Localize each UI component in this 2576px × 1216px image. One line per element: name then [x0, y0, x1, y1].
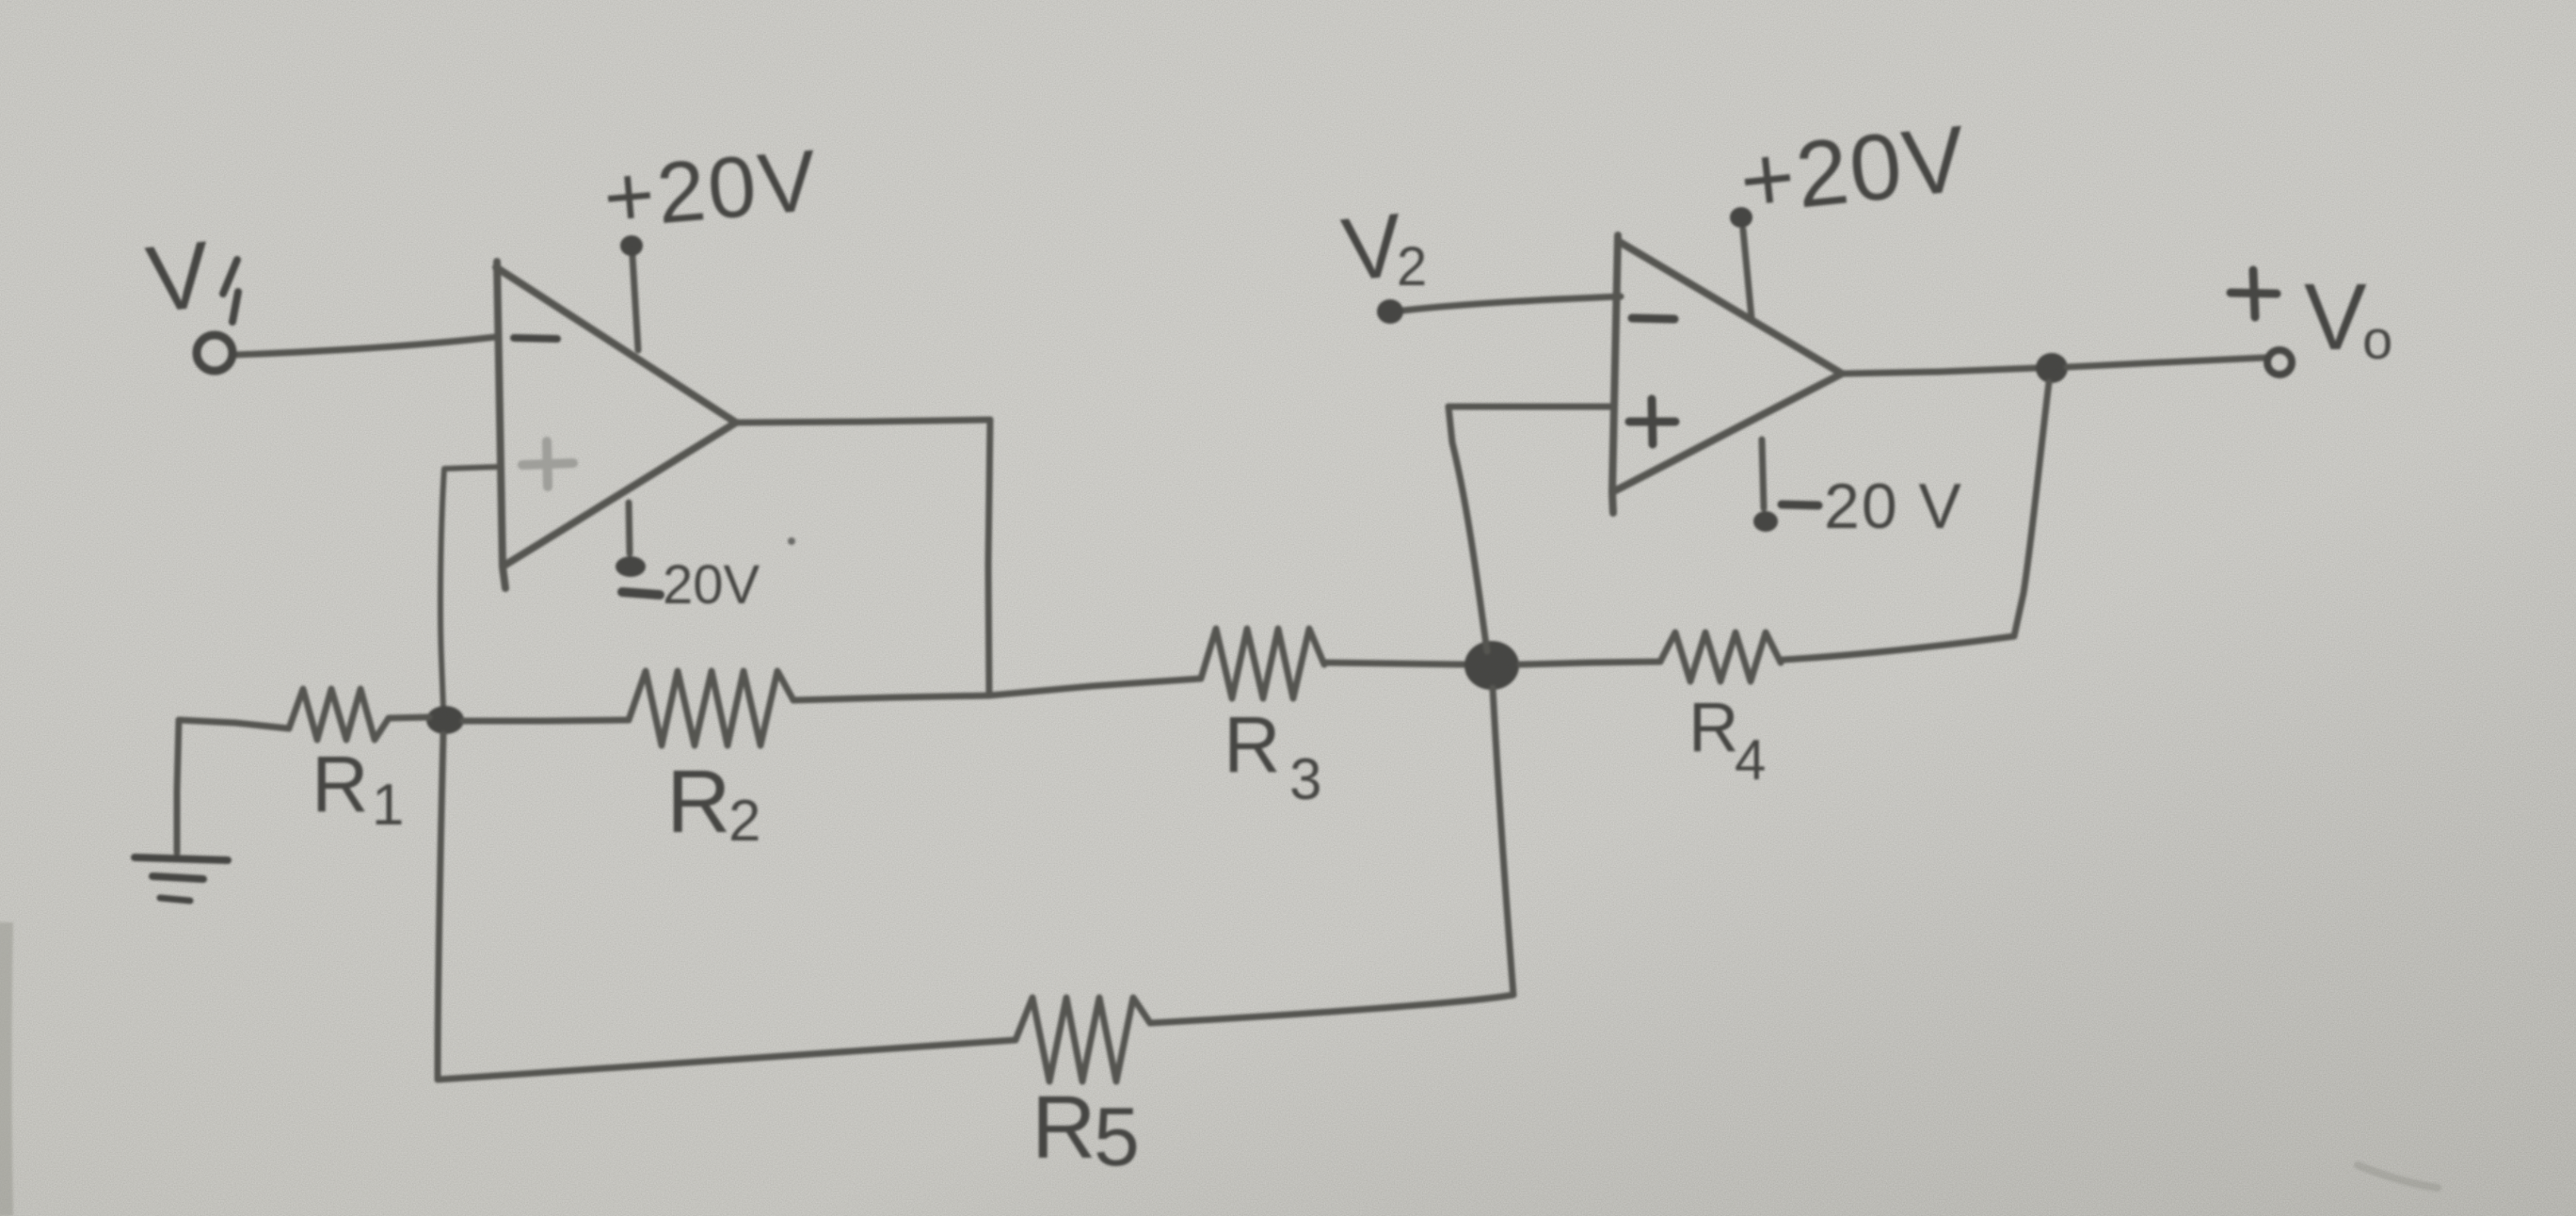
svg-text:1: 1 [372, 773, 404, 838]
U2 inverting input marker [1632, 318, 1674, 319]
terminal V1 (open circle) [197, 335, 232, 371]
ground wire [177, 720, 179, 853]
U1 +20V supply dot [620, 235, 643, 256]
resistor R5 [1016, 998, 1150, 1081]
U1 -20V supply stub [629, 503, 630, 553]
wire: R1 to node A [389, 717, 429, 718]
U2 non-inverting input marker [1629, 418, 1675, 426]
wire: V1 to inverting input of U1 [234, 337, 496, 355]
label V2 [1337, 195, 1407, 300]
wire: R2 to output node [793, 696, 989, 700]
label -20V (U1) [622, 592, 660, 595]
wire: V2 to U2 inverting input [1402, 296, 1621, 311]
node A junction dot [426, 706, 464, 734]
U1 inverting input marker [514, 338, 557, 339]
U2 -20V supply dot [1753, 511, 1778, 532]
paper edge band bottom-left [5, 922, 7, 1216]
svg-text:5: 5 [1094, 1090, 1140, 1183]
svg-text:2: 2 [1397, 236, 1427, 297]
wire: output node to R3 [989, 679, 1201, 696]
resistor R2 [629, 671, 793, 745]
terminal Vo (open circle) [2267, 350, 2292, 375]
wire: output node to Vo terminal [2067, 358, 2265, 367]
svg-text:20 V: 20 V [1824, 471, 1963, 542]
U1 -20V supply dot [616, 556, 646, 577]
wire: node B down to bottom rail [1493, 688, 1513, 995]
wire: U1 non-inverting input down to node A [440, 467, 498, 708]
svg-text:2: 2 [728, 789, 760, 854]
svg-text:R: R [666, 752, 731, 852]
label -20V (U2) [1782, 504, 1818, 505]
svg-text:V: V [2304, 264, 2367, 370]
ground symbol [135, 857, 228, 860]
wire: bottom corner to R5 right [1150, 995, 1513, 1023]
label +20V (U1) [600, 133, 823, 248]
wire: U1 output to corner [736, 420, 990, 423]
U1 non-inverting input marker (light glare stroke) [522, 463, 573, 465]
wire: R3 to node B [1324, 663, 1466, 664]
resistor R1 [289, 689, 389, 740]
wire: ground corner to R1 [179, 720, 289, 728]
node B junction dot [1464, 641, 1519, 690]
svg-text:R: R [312, 740, 369, 828]
output node junction dot [2036, 353, 2068, 383]
terminal V2 (dot) [1377, 299, 1403, 324]
wire: U2 output to output node [1842, 368, 2037, 374]
resistor R4 [1660, 632, 1781, 681]
svg-text:R: R [1688, 688, 1738, 766]
wire: node A to R2 [463, 720, 629, 721]
stray pen dot [788, 537, 795, 545]
label +20V (U2) [1735, 105, 1972, 233]
svg-text:+20V: +20V [600, 133, 823, 248]
U1 +20V supply stub [632, 256, 638, 350]
svg-text:R: R [1224, 700, 1281, 789]
wire: node B to R4 [1520, 662, 1660, 664]
U2 +20V supply stub [1743, 230, 1752, 318]
wire: corner to U2 non-inverting input [1448, 404, 1612, 410]
faint smudge bottom right [2358, 1165, 2438, 1188]
svg-text:20V: 20V [663, 554, 760, 616]
wire: node B up to U2 non-inverting corner [1448, 407, 1487, 651]
wire: bottom rail from node A to R5 [438, 1040, 1016, 1080]
svg-text:R: R [1032, 1078, 1096, 1177]
wire: corner to R4 [1783, 636, 2014, 660]
resistor R3 [1201, 629, 1324, 698]
label V1 [142, 221, 216, 332]
op-amp U2 triangle [1612, 235, 1618, 513]
svg-text:V: V [142, 221, 216, 332]
svg-text:o: o [2362, 310, 2392, 371]
wire: node A down [438, 734, 443, 1080]
U2 +20V supply dot [1730, 207, 1752, 228]
svg-text:3: 3 [1289, 747, 1321, 812]
U2 -20V supply stub [1762, 440, 1764, 508]
svg-text:4: 4 [1735, 728, 1766, 792]
wire: output node down (feedback) [2014, 382, 2049, 636]
wire: corner down to R2/R3 node [988, 420, 990, 696]
op-amp U1 triangle [497, 262, 505, 588]
plus sign at Vo [2231, 293, 2277, 294]
